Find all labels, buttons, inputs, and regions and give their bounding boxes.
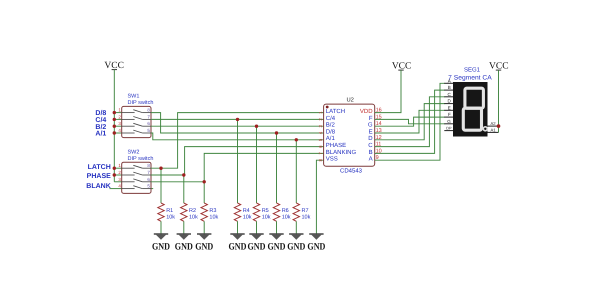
- svg-text:GND: GND: [152, 242, 170, 253]
- svg-text:LATCH: LATCH: [88, 164, 111, 171]
- resistor R5: [253, 203, 259, 221]
- svg-text:B/2: B/2: [326, 122, 336, 129]
- svg-text:F: F: [369, 115, 373, 122]
- wire U2 pin11 C to SEG1 C: [375, 97, 445, 147]
- svg-text:GND: GND: [229, 242, 247, 253]
- wire net BLANK : SW2 pin6 to U2 pin7: [151, 153, 324, 181]
- svg-text:A: A: [448, 78, 451, 83]
- SEG1 left pin stubs: [444, 83, 453, 130]
- wire net PHASE : SW2 pin7 to U2 pin6: [151, 147, 324, 175]
- svg-text:10k: 10k: [243, 214, 252, 220]
- svg-text:A/1: A/1: [95, 130, 106, 138]
- svg-text:BLANKING: BLANKING: [326, 149, 357, 156]
- svg-text:LATCH: LATCH: [326, 108, 345, 115]
- svg-text:B: B: [369, 149, 373, 156]
- svg-text:C/4: C/4: [326, 115, 336, 122]
- wire R4 pullup to C/4 net: [237, 119, 239, 203]
- svg-text:R4: R4: [243, 208, 250, 214]
- svg-text:A: A: [369, 156, 373, 163]
- svg-text:GND: GND: [175, 242, 193, 253]
- power VCC symbol 2 (above U2): [392, 62, 412, 72]
- junction VCC rail / SW1 pin1: [113, 111, 116, 114]
- ground GND under R7: [287, 234, 305, 253]
- svg-text:U2: U2: [347, 96, 354, 103]
- wire net B/2 : SW1 pin6 to U2 pin3: [151, 125, 324, 127]
- resistor R1: [158, 203, 164, 221]
- ground GND under R3: [195, 234, 213, 253]
- svg-text:F: F: [448, 112, 451, 117]
- resistor R3: [201, 203, 207, 221]
- svg-text:R7: R7: [302, 208, 309, 214]
- wire net LATCH : SW2 pin8 to U2 pin1: [151, 113, 324, 169]
- label R5 10k: [262, 208, 271, 221]
- svg-text:E: E: [448, 105, 451, 110]
- svg-text:R5: R5: [262, 208, 269, 214]
- svg-text:GND: GND: [195, 242, 213, 253]
- wire U2 pin12 D to SEG1 D: [375, 104, 445, 140]
- svg-text:R2: R2: [189, 208, 196, 214]
- junction C/4 / R4: [236, 118, 239, 121]
- resistor R4: [234, 203, 240, 221]
- svg-text:GND: GND: [268, 242, 286, 253]
- ground GND under R5: [248, 234, 266, 253]
- wire R7 to ground: [295, 221, 297, 239]
- ground GND under R2: [175, 234, 193, 253]
- label R6 10k: [282, 208, 291, 221]
- svg-text:10k: 10k: [262, 214, 271, 220]
- svg-text:GND: GND: [307, 242, 325, 253]
- junction VCC rail / SW2 pin2: [113, 173, 116, 176]
- label R7 10k: [302, 208, 311, 221]
- junction LATCH / R1: [159, 167, 162, 170]
- svg-text:PHASE: PHASE: [326, 142, 346, 149]
- wire U2 pin15 F-out to SEG1 G: [375, 119, 445, 123]
- wire SW1 left pin stubs: [114, 113, 121, 133]
- wire R5 pullup to B/2 net: [256, 126, 258, 203]
- label SW1 DIP switch: [128, 94, 154, 106]
- junction VCC rail / SW2 pin1: [113, 167, 116, 170]
- svg-text:GND: GND: [248, 242, 266, 253]
- svg-text:R1: R1: [166, 208, 173, 214]
- junction VCC rail / SW1 pin4: [113, 131, 116, 134]
- svg-text:SEG1: SEG1: [464, 67, 481, 74]
- label SW2 DIP switch: [128, 149, 154, 161]
- svg-text:10k: 10k: [166, 214, 175, 220]
- svg-text:D: D: [368, 135, 373, 142]
- svg-text:SW1: SW1: [128, 94, 140, 100]
- ground GND under R6: [268, 234, 286, 253]
- svg-text:BLANK: BLANK: [86, 183, 111, 190]
- wire R5 to ground: [256, 221, 258, 239]
- U2 pin names right column F G E D C B A: [368, 115, 373, 163]
- wire U2 pin9 A to SEG1 A: [375, 83, 445, 160]
- svg-text:VSS: VSS: [326, 156, 338, 163]
- wire R3 pullup to BLANK net: [203, 182, 205, 203]
- DIP switch SW1: [122, 106, 151, 137]
- junction VCC rail / SW1 pin3: [113, 125, 116, 128]
- svg-text:R6: R6: [282, 208, 289, 214]
- wire net A/1 : SW1 pin5 to U2 pin5: [151, 133, 324, 140]
- wire R1 to ground: [160, 221, 162, 239]
- wire R1 pullup to LATCH net: [160, 168, 162, 203]
- ground GND under U2 VSS: [307, 234, 325, 253]
- svg-text:A/1: A/1: [326, 135, 336, 142]
- svg-text:DIP switch: DIP switch: [128, 156, 154, 162]
- junction BLANK / R3: [203, 180, 206, 183]
- svg-text:D/8: D/8: [326, 128, 336, 135]
- svg-text:A2: A2: [491, 121, 497, 126]
- resistor R6: [273, 203, 279, 221]
- wire U2 pin13 E to SEG1 E: [375, 110, 445, 133]
- power VCC symbol 1 (left rail): [104, 61, 124, 71]
- U2 pin names left column: [326, 108, 357, 163]
- svg-text:7 Segment CA: 7 Segment CA: [448, 75, 492, 82]
- resistor R7: [293, 203, 299, 221]
- U2 pin numbers right 16-9: [376, 108, 382, 162]
- junction SEG1 A2 / anode wire: [497, 124, 501, 128]
- svg-text:10k: 10k: [282, 214, 291, 220]
- svg-text:VDD: VDD: [360, 108, 373, 115]
- wire R2 pullup to PHASE net: [183, 175, 185, 203]
- resistor R2: [181, 203, 187, 221]
- ground GND under R1: [152, 234, 170, 253]
- SW1 pin numbers right 8-5: [147, 108, 150, 133]
- junction PHASE / R2: [182, 173, 185, 176]
- wire R2 to ground: [183, 221, 185, 239]
- wire U2 VSS pin8 to ground: [316, 160, 323, 239]
- svg-text:D/8: D/8: [95, 109, 106, 117]
- DIP switch SW2: [122, 162, 151, 193]
- ground GND under R4: [229, 234, 247, 253]
- wire VCC rail down to DIP switches: [113, 70, 115, 182]
- wire net D/8 : SW1 pin8 to U2 pin4: [151, 113, 324, 133]
- U2 pin numbers left 1-8 (rotated): [318, 111, 323, 162]
- junction VCC rail / SW1 pin2: [113, 118, 116, 121]
- svg-text:10k: 10k: [209, 214, 218, 220]
- svg-text:10k: 10k: [189, 214, 198, 220]
- label R2 10k: [189, 208, 198, 221]
- svg-text:DIP switch: DIP switch: [128, 100, 154, 106]
- 7-segment display SEG1 body: [453, 82, 488, 137]
- wire net C/4 : SW1 pin7 to U2 pin2: [151, 118, 324, 120]
- junction A/1 / R7: [295, 138, 298, 141]
- svg-text:CD4543: CD4543: [340, 167, 363, 174]
- SW2 pin numbers left 1-4: [118, 163, 121, 188]
- wire U2 pin10 B to SEG1 B: [375, 90, 445, 153]
- wire R3 to ground: [203, 221, 205, 239]
- svg-text:R3: R3: [209, 208, 216, 214]
- junction B/2 / R5: [255, 125, 258, 128]
- wire R6 pullup to D/8 net: [276, 133, 278, 203]
- label R1 10k: [166, 208, 175, 221]
- wire VCC to SEG1 common anode: [498, 70, 500, 132]
- svg-text:B: B: [448, 85, 451, 90]
- svg-text:G: G: [368, 122, 373, 129]
- wire U2 pin14 G-out to SEG1 F: [375, 117, 445, 126]
- wire R6 to ground: [276, 221, 278, 239]
- wire SW2 left pin stubs: [110, 168, 154, 188]
- svg-text:SW2: SW2: [128, 149, 140, 155]
- SEG1 right pins A2 A1: [488, 121, 499, 132]
- svg-text:C/4: C/4: [95, 116, 106, 124]
- svg-text:A1: A1: [491, 127, 497, 132]
- SW2 pin numbers right 8-5: [147, 163, 150, 188]
- SEG1 pin letters A-DP: [446, 78, 452, 130]
- label R4 10k: [243, 208, 252, 221]
- wire R7 pullup to A/1 net: [295, 140, 297, 203]
- svg-text:B/2: B/2: [95, 123, 106, 131]
- wire R4 to ground: [237, 221, 239, 239]
- SW1 pin numbers left 1-4: [118, 108, 121, 133]
- svg-text:DP: DP: [446, 127, 452, 131]
- wire U2 pin16 VDD to VCC: [375, 70, 401, 113]
- label R3 10k: [209, 208, 218, 221]
- svg-text:GND: GND: [287, 242, 305, 253]
- power VCC symbol 3 (display anode): [489, 62, 509, 72]
- svg-text:C: C: [368, 142, 373, 149]
- svg-text:PHASE: PHASE: [87, 173, 111, 180]
- svg-text:E: E: [369, 128, 373, 135]
- IC U2 CD4543 body: [324, 104, 375, 166]
- svg-text:10k: 10k: [302, 214, 311, 220]
- svg-text:G: G: [447, 119, 451, 124]
- junction D/8 / R6: [275, 131, 278, 134]
